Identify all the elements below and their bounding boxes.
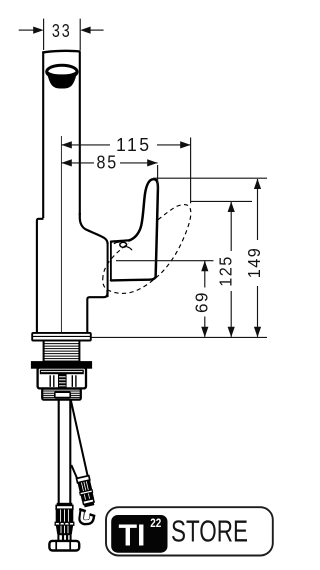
svg-text:STORE: STORE xyxy=(171,514,248,549)
svg-text:115: 115 xyxy=(116,135,152,155)
svg-text:TI: TI xyxy=(119,518,146,552)
svg-text:125: 125 xyxy=(216,255,236,286)
svg-text:149: 149 xyxy=(244,247,264,278)
svg-text:22: 22 xyxy=(150,516,161,530)
svg-text:33: 33 xyxy=(52,20,72,41)
svg-text:69: 69 xyxy=(192,291,212,313)
svg-text:85: 85 xyxy=(97,152,118,172)
